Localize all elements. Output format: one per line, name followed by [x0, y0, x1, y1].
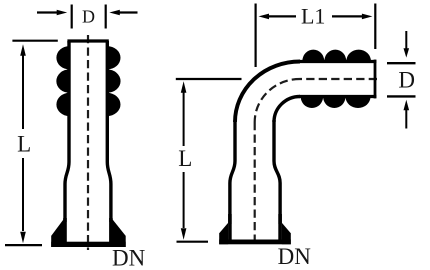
svg-text:DN: DN	[112, 245, 146, 270]
svg-text:D: D	[82, 7, 95, 27]
svg-text:D: D	[398, 67, 415, 92]
svg-text:L: L	[17, 132, 31, 157]
svg-text:L1: L1	[301, 4, 325, 29]
svg-text:L: L	[178, 146, 192, 171]
svg-text:DN: DN	[278, 244, 312, 269]
